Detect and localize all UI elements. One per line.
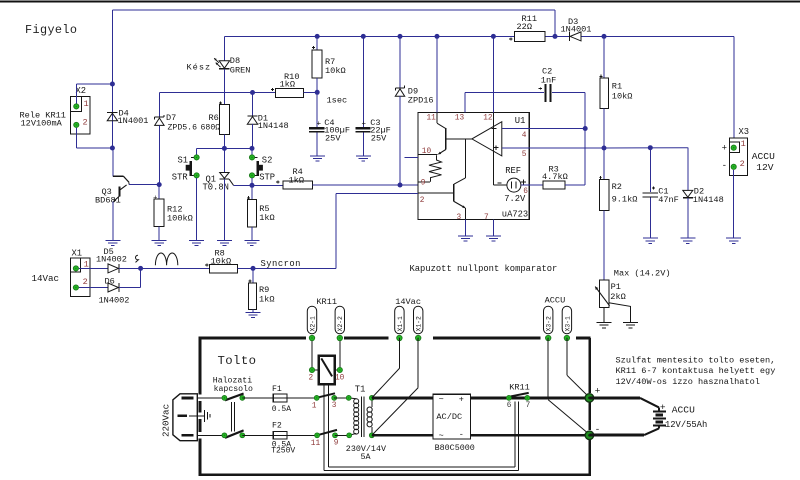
- svg-text:7: 7: [526, 402, 531, 410]
- pin coil 10: [337, 367, 342, 372]
- svg-text:6: 6: [507, 402, 512, 410]
- svg-text:1sec: 1sec: [327, 96, 348, 106]
- svg-text:6: 6: [523, 188, 528, 196]
- node at 112,84: [110, 82, 115, 87]
- svg-text:B80C5000: B80C5000: [435, 443, 475, 453]
- svg-text:2: 2: [740, 159, 745, 169]
- svg-text:1: 1: [312, 403, 317, 411]
- node D1 top: [250, 90, 255, 95]
- ground Q3: [105, 240, 120, 242]
- wire secondary bottom to AC/DC: [372, 434, 433, 437]
- pin contact L1: [222, 396, 227, 401]
- wire X3 pin2 to ground: [733, 170, 735, 238]
- svg-text:GREN: GREN: [230, 65, 251, 75]
- pin X1-2: [73, 285, 78, 290]
- node R12/D7/Q3: [157, 182, 162, 187]
- resistor R9: [249, 283, 257, 310]
- svg-text:3: 3: [332, 402, 337, 410]
- svg-text:ACCU: ACCU: [545, 296, 566, 306]
- svg-text:1N4001: 1N4001: [561, 25, 592, 35]
- op-amp triangle: [472, 122, 502, 156]
- svg-text:12V/40W-os izzo hasznalhatol: 12V/40W-os izzo hasznalhatol: [616, 377, 760, 387]
- svg-text:220Vac: 220Vac: [161, 404, 172, 437]
- wire to F1: [242, 397, 273, 399]
- wire pin3 to ground: [464, 220, 466, 236]
- svg-text:F2: F2: [272, 422, 282, 431]
- node D9 bottom: [398, 183, 403, 188]
- pin contact 7: [525, 396, 530, 401]
- pin X2-2: [74, 122, 79, 127]
- wire plug to switch top: [197, 397, 224, 399]
- wire F1 to KR11 contact 1: [287, 397, 317, 399]
- relay contact blade 1-3: [317, 393, 335, 397]
- relay contact blade 11-9: [317, 430, 337, 435]
- svg-text:9.1kΩ: 9.1kΩ: [612, 195, 638, 205]
- svg-text:1N4148: 1N4148: [258, 121, 289, 131]
- pin X2-1: [74, 104, 79, 109]
- svg-text:-: -: [722, 161, 727, 171]
- svg-text:47nF: 47nF: [658, 195, 679, 205]
- ground P1 wiper: [623, 322, 638, 324]
- svg-text:AC/DC: AC/DC: [436, 412, 462, 422]
- wire D9 to pin9 line: [399, 96, 401, 185]
- pin oval X3-1: [564, 335, 569, 340]
- svg-text:X2: X2: [76, 86, 87, 96]
- resistor R6: [219, 105, 229, 135]
- wire Q1 cathode to ground: [223, 179, 225, 241]
- sine symbol: [155, 253, 177, 265]
- svg-text:25V: 25V: [325, 134, 341, 144]
- wire node to R12: [158, 185, 160, 199]
- pin S1 bottom: [194, 173, 199, 178]
- transformer T1 secondary winding: [371, 398, 373, 407]
- ground pin7: [486, 235, 501, 237]
- diode D3 1N4001: [569, 32, 571, 41]
- pin oval X2-1: [309, 335, 314, 340]
- wire X2-1 oval to coil: [311, 341, 313, 367]
- wire X1 pin1 to D5: [79, 267, 108, 269]
- zener D7 ZPD5.6: [155, 116, 164, 118]
- svg-text:5A: 5A: [361, 452, 372, 462]
- svg-text:X1: X1: [72, 249, 83, 259]
- pin T1 primary top: [346, 396, 351, 401]
- capacitor C3 22uF: [355, 127, 370, 130]
- svg-text:uA723: uA723: [502, 209, 528, 219]
- svg-text:1kΩ: 1kΩ: [259, 295, 274, 305]
- internal opamp output line: [447, 138, 472, 140]
- capacitor C1 47nF: [649, 148, 651, 193]
- wire X1-2 to secondary bottom: [417, 338, 419, 388]
- wire C1 to ground: [649, 197, 651, 238]
- svg-text:REF: REF: [505, 166, 521, 176]
- pin contact L2: [222, 433, 227, 438]
- svg-text:11: 11: [311, 440, 321, 448]
- svg-text:1: 1: [741, 139, 746, 149]
- capacitor C4 100uF: [316, 105, 318, 127]
- svg-text:22Ω: 22Ω: [517, 22, 532, 32]
- switch S2 STP: [255, 156, 258, 158]
- reference REF 7.2V: [492, 113, 494, 186]
- svg-text:X3: X3: [739, 127, 750, 137]
- terminal oval X1-1: [395, 306, 404, 334]
- svg-text:1N4002: 1N4002: [96, 255, 127, 265]
- node at 112,148: [110, 146, 115, 151]
- node R6 bottom junction: [222, 146, 227, 151]
- resistor R5: [247, 200, 256, 228]
- svg-text:100kΩ: 100kΩ: [167, 214, 193, 224]
- wire R4 to IC pin9: [312, 184, 418, 186]
- svg-text:10: 10: [335, 374, 345, 382]
- resistor R8: [209, 264, 237, 273]
- wire X1 pin2 to D6: [79, 287, 108, 289]
- wire tap to R2: [603, 148, 605, 179]
- border top line: [0, 1, 800, 3]
- ground P1: [597, 322, 612, 324]
- terminal oval X1-2: [414, 306, 423, 334]
- terminal minus: [585, 431, 594, 440]
- svg-text:D6: D6: [105, 276, 115, 286]
- svg-text:11: 11: [427, 114, 437, 122]
- svg-text:KR11: KR11: [509, 383, 530, 393]
- wire pin13 from C2 line: [464, 93, 466, 113]
- diode D4 1N4001: [107, 111, 117, 113]
- relay coil KR11: [319, 356, 335, 385]
- wire to F2: [242, 434, 273, 436]
- svg-text:ZPD5.6: ZPD5.6: [168, 123, 198, 132]
- pin contact 3: [332, 396, 337, 401]
- terminal oval X3-1: [562, 306, 571, 334]
- squiggle mark: [135, 255, 138, 262]
- svg-text:+: +: [595, 386, 601, 397]
- wire D7 to node: [158, 125, 160, 184]
- svg-text:U1: U1: [515, 116, 526, 126]
- svg-text:S2: S2: [262, 156, 273, 166]
- ground S1: [189, 240, 204, 242]
- svg-text:9: 9: [334, 439, 339, 447]
- svg-text:1: 1: [84, 99, 89, 109]
- wire R10 to R7 node: [303, 92, 317, 94]
- wire rail to D9: [399, 36, 401, 87]
- svg-text:Kapuzott nullpont komparator: Kapuzott nullpont komparator: [410, 264, 558, 274]
- wire R9 to ground: [252, 309, 254, 312]
- svg-text:7: 7: [484, 214, 489, 222]
- svg-text:1N4001: 1N4001: [118, 116, 149, 126]
- pin X1-1: [73, 266, 78, 271]
- ground C4: [310, 155, 325, 157]
- svg-text:X2-1: X2-1: [309, 316, 316, 332]
- wire contact 3 to T1 primary: [334, 397, 349, 399]
- transformer core: [360, 397, 362, 438]
- wire R1 to tap: [603, 108, 605, 148]
- resistor R4: [252, 184, 283, 186]
- transistor Q3 BD681: [113, 175, 124, 177]
- wire pin12 from rail: [492, 36, 494, 112]
- internal resistor zigzag: [429, 155, 442, 182]
- terminal plus: [585, 394, 594, 403]
- terminal oval X3-2: [544, 306, 553, 334]
- pin S1 top: [194, 155, 199, 160]
- internal pin10 stub: [418, 154, 437, 156]
- wire top horizontal from X2 node to R11/D3 segment: [112, 9, 555, 11]
- svg-text:12V100mA: 12V100mA: [21, 119, 63, 129]
- svg-text:P1: P1: [611, 282, 621, 292]
- svg-text:kapcsolo: kapcsolo: [214, 384, 253, 394]
- svg-text:R6: R6: [209, 113, 219, 123]
- internal transistor B: [464, 139, 466, 178]
- pin contact 6: [507, 396, 512, 401]
- node D5/D6: [138, 266, 143, 271]
- node C2/pin4/R3: [583, 126, 588, 131]
- thyristor Q1 T0.8N: [223, 148, 225, 172]
- connector X2: [71, 97, 91, 135]
- svg-text:Halozati: Halozati: [213, 375, 252, 385]
- wire pin4 line: [502, 128, 585, 130]
- wire D2 to ground: [687, 198, 689, 238]
- wire R2 to P1: [603, 211, 605, 280]
- transformer T1 primary winding: [349, 397, 357, 400]
- svg-text:BD681: BD681: [95, 195, 121, 205]
- wire S1 to ground: [196, 178, 198, 241]
- terminal oval X2-1: [307, 306, 316, 334]
- wire R3 to C2/pin4 node: [565, 184, 585, 186]
- resistor R1: [600, 78, 609, 108]
- internal transistor A: [436, 113, 438, 124]
- node gate/R4/R5: [250, 183, 255, 188]
- ground X3: [726, 237, 741, 239]
- pin T1 secondary top: [369, 396, 374, 401]
- wire rail to R7: [316, 36, 318, 50]
- svg-text:2kΩ: 2kΩ: [610, 292, 625, 302]
- svg-text:Max (14.2V): Max (14.2V): [614, 269, 671, 279]
- wire X2-2 oval to coil: [339, 341, 341, 367]
- connector X1: [71, 258, 91, 296]
- svg-text:ZPD16: ZPD16: [408, 96, 434, 106]
- wire X2 pin2 to lower node: [75, 128, 77, 148]
- resistor R3: [543, 181, 565, 189]
- wire R7 to node: [316, 78, 318, 92]
- svg-text:5: 5: [522, 151, 527, 159]
- wire rail to C3: [362, 36, 364, 127]
- pin oval X2-2: [337, 335, 342, 340]
- pin contact 11: [315, 433, 320, 438]
- svg-text:X1-1: X1-1: [397, 316, 404, 332]
- svg-text:+: +: [317, 120, 322, 128]
- svg-text:ACCU: ACCU: [672, 405, 695, 416]
- diode D1 1N4148: [247, 115, 257, 117]
- wire C3 to ground: [362, 133, 364, 156]
- wire Q3 emitter to ground: [112, 202, 114, 241]
- svg-text:1N4002: 1N4002: [99, 296, 130, 306]
- wire battery to minus terminal: [658, 425, 660, 428]
- svg-text:4.7kΩ: 4.7kΩ: [542, 172, 568, 182]
- ground R12: [152, 240, 167, 242]
- wire D6 up to junction: [119, 287, 141, 289]
- wire pin7 to ground: [492, 220, 494, 236]
- svg-text:Tolto: Tolto: [218, 354, 257, 368]
- switch S1 STR: [191, 156, 194, 158]
- node C1 top: [648, 145, 653, 150]
- wire pin5 line: [502, 147, 604, 149]
- svg-text:T250V: T250V: [271, 447, 295, 456]
- ground Q1: [217, 240, 232, 242]
- wire contact 9 to T1 primary bottom: [335, 434, 349, 436]
- wire X2 pin1 to rail node: [76, 83, 112, 85]
- pin S2 bottom: [249, 173, 254, 178]
- pin S2 top: [249, 155, 254, 160]
- wire D5 to junction: [119, 267, 209, 269]
- svg-text:2: 2: [83, 277, 88, 287]
- svg-text:1N4148: 1N4148: [693, 195, 724, 205]
- pin X3-2: [731, 164, 736, 169]
- pin contact R2: [240, 433, 245, 438]
- svg-text:R9: R9: [259, 285, 269, 295]
- wire plus terminal to battery: [589, 396, 640, 399]
- led D8 GREN: [219, 61, 229, 68]
- pin oval X1-2: [416, 335, 421, 340]
- wire X2 node down to Q3 collector: [112, 148, 114, 177]
- svg-text:X2-2: X2-2: [337, 316, 344, 332]
- wire X3-2 to minus terminal: [547, 338, 549, 400]
- wire secondary top to AC/DC: [372, 396, 433, 399]
- wire D1 vertical: [252, 93, 254, 116]
- fuse F2 0.5A T250V: [273, 434, 287, 436]
- ground D2: [680, 237, 695, 239]
- mains plug: [173, 394, 197, 441]
- wire AC/DC to minus terminal: [471, 434, 590, 437]
- wire zener line y=92.5: [159, 92, 275, 94]
- wire pin11 from rail: [436, 36, 438, 112]
- svg-text:Syncron: Syncron: [261, 259, 301, 269]
- svg-text:+: +: [459, 395, 464, 405]
- pin contact R1: [240, 396, 245, 401]
- ground C1: [643, 237, 658, 239]
- rectifier AC/DC B80C5000: [433, 394, 471, 439]
- svg-text:2: 2: [83, 118, 88, 128]
- svg-text:Szulfat mentesito tolto eseten: Szulfat mentesito tolto eseten,: [616, 355, 776, 365]
- wire AC/DC to plus terminal: [471, 396, 590, 399]
- wire node to R9: [252, 268, 254, 282]
- ground pin3: [458, 235, 473, 237]
- svg-text:STP: STP: [259, 172, 275, 182]
- node R9 top: [251, 266, 256, 271]
- svg-text:T0.8N: T0.8N: [203, 182, 229, 192]
- diode D5 1N4002: [108, 264, 118, 273]
- svg-text:10kΩ: 10kΩ: [325, 66, 346, 76]
- svg-text:2: 2: [420, 197, 425, 205]
- ground C3: [356, 155, 371, 157]
- svg-text:+: +: [660, 402, 666, 413]
- svg-text:680Ω: 680Ω: [201, 124, 221, 133]
- svg-text:14Vac: 14Vac: [395, 297, 421, 307]
- wire F2 to KR11 contact 11: [287, 434, 317, 436]
- wire D8 to R6: [223, 69, 225, 105]
- resistor R12: [154, 199, 164, 227]
- pin contact 9: [333, 433, 338, 438]
- svg-text:ACCU: ACCU: [752, 151, 775, 162]
- svg-text:D7: D7: [166, 113, 176, 123]
- node tap R1/R2/pin5: [602, 146, 607, 151]
- svg-text:T1: T1: [355, 385, 366, 395]
- svg-text:2: 2: [309, 374, 314, 382]
- svg-text:10kΩ: 10kΩ: [612, 92, 633, 102]
- pin T1 secondary bottom: [369, 433, 374, 438]
- svg-text:~: ~: [439, 395, 444, 405]
- svg-text:~: ~: [439, 431, 444, 441]
- svg-text:R1: R1: [612, 82, 622, 92]
- wire y=148.4 S1-Q1-S2: [197, 147, 252, 149]
- wire R12 to ground: [158, 227, 160, 241]
- svg-text:9: 9: [421, 179, 426, 187]
- resistor R7: [312, 50, 322, 78]
- node S2 top corner: [250, 146, 255, 151]
- svg-text:10: 10: [422, 148, 432, 156]
- resistor R10: [275, 88, 303, 97]
- svg-text:10kΩ: 10kΩ: [211, 256, 232, 266]
- svg-text:X3-1: X3-1: [564, 316, 571, 332]
- wire R5 to ground: [251, 227, 253, 241]
- node R7/R10/C4: [315, 90, 320, 95]
- battery ACCU 12V/55Ah: [653, 410, 666, 412]
- wire pin2 from syncron: [336, 192, 418, 194]
- wire P1 to ground: [603, 308, 605, 323]
- svg-text:13: 13: [455, 114, 465, 122]
- wire D4 vertical: [111, 84, 113, 148]
- zener D9 ZPD16: [395, 87, 404, 89]
- capacitor C2 1nF: [465, 92, 544, 94]
- svg-text:1kΩ: 1kΩ: [280, 80, 295, 90]
- fuse F1 0.5A: [273, 397, 287, 399]
- svg-text:F1: F1: [272, 385, 282, 394]
- svg-text:X3-2: X3-2: [546, 316, 553, 332]
- svg-text:KR11: KR11: [316, 297, 337, 307]
- svg-text:0.5A: 0.5A: [272, 405, 291, 414]
- wire X1-1 to secondary top: [398, 338, 400, 368]
- diode D6 1N4002: [108, 283, 118, 292]
- svg-text:-: -: [459, 430, 464, 440]
- wire tap line to C1/D2: [604, 147, 688, 149]
- wire pin6 to R3: [521, 184, 543, 186]
- switch link lines: [231, 402, 233, 431]
- svg-text:S1: S1: [178, 156, 189, 166]
- pin10 external stub: [405, 156, 419, 158]
- connector X3: [730, 138, 748, 176]
- op-amp U1 uA723 box: [418, 113, 529, 220]
- pin contact 1: [314, 396, 319, 401]
- svg-text:14Vac: 14Vac: [32, 273, 60, 284]
- wire rail corner to D8: [223, 36, 225, 60]
- wire Q1 gate to S2 node: [234, 184, 253, 186]
- svg-text:Figyelo: Figyelo: [25, 23, 77, 37]
- pin oval X1-1: [397, 335, 402, 340]
- wire S2 bottom to R5: [251, 178, 253, 200]
- earth ground at plug: [189, 415, 204, 417]
- ground R5: [244, 240, 259, 242]
- wire rail to R1: [603, 36, 605, 78]
- pin T1 primary bottom: [347, 433, 352, 438]
- svg-text:3: 3: [457, 214, 462, 222]
- svg-text:X1-2: X1-2: [416, 316, 423, 332]
- svg-text:-: -: [595, 424, 601, 435]
- terminal oval X2-2: [335, 306, 344, 334]
- wire syncron up to pin2: [335, 193, 337, 268]
- wire R8 to R9 node: [238, 267, 337, 269]
- svg-text:12: 12: [483, 114, 493, 122]
- wire main supply rail y=36.4: [224, 35, 514, 37]
- potentiometer P1 2k: [599, 280, 608, 308]
- wire R6 to node: [223, 135, 225, 149]
- relay mechanical link: [323, 384, 325, 470]
- switch contact top (halozati): [225, 394, 244, 401]
